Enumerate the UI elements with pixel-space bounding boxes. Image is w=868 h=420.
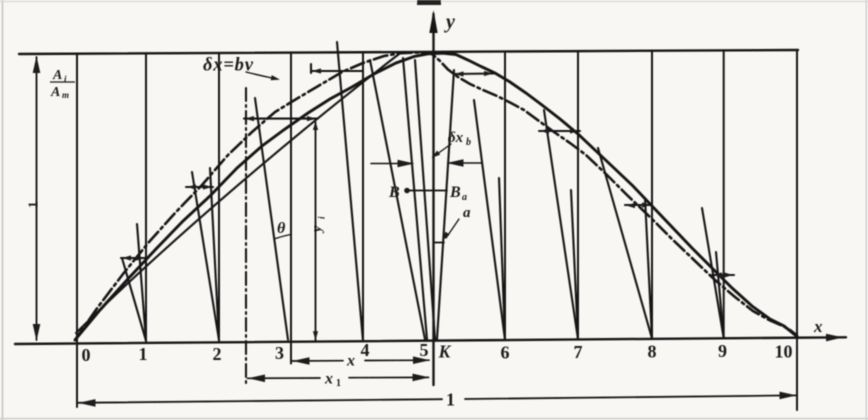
step station 9: [712, 274, 734, 276]
wedge line station8 right: [645, 198, 652, 339]
svg-text:x: x: [324, 371, 333, 388]
step end arrows: [122, 255, 131, 260]
svg-text:m: m: [62, 90, 69, 100]
step right of axis: [454, 73, 495, 76]
wedge line station3 left (theta line): [255, 98, 288, 340]
point B dot: [404, 188, 410, 194]
svg-text:A: A: [50, 85, 60, 100]
step horizontal H2 with tick: [311, 64, 363, 73]
y-axis: [432, 14, 434, 385]
svg-text:1: 1: [139, 344, 148, 364]
bottom dimension line: [78, 395, 796, 402]
svg-text:θ: θ: [277, 220, 286, 237]
x-axis arrowhead: [826, 334, 843, 342]
x-axis: [15, 337, 846, 344]
svg-text:7: 7: [574, 342, 583, 362]
left dimension line: [36, 57, 38, 340]
wedge line K left: [415, 60, 435, 339]
scan blob top: [417, 0, 441, 5]
svg-text:3: 3: [275, 343, 284, 363]
gridline 4: [362, 52, 364, 341]
y-axis arrowhead: [429, 10, 437, 33]
svg-text:10: 10: [775, 342, 793, 362]
svg-text:a: a: [462, 192, 467, 203]
delta-xb leader: [433, 144, 451, 157]
wedge line station2 left: [192, 172, 219, 340]
wedge line station5 left outer: [370, 60, 425, 339]
scan border right: [865, 0, 867, 420]
step station 8: [625, 204, 652, 206]
scan border bottom: [0, 418, 868, 420]
gridline 9: [723, 50, 725, 338]
svg-text:8: 8: [648, 342, 657, 362]
wedge line station6 left: [474, 100, 505, 340]
svg-text:A: A: [52, 68, 62, 83]
wedge line station9 right: [716, 252, 724, 338]
step horizontal H1: [244, 118, 317, 120]
wedge line station5 left inner: [403, 58, 427, 339]
svg-text:2: 2: [213, 344, 222, 364]
delta-x=bv leader arrow: [246, 72, 277, 79]
gridline 0: [76, 54, 78, 407]
svg-text:0: 0: [82, 345, 91, 365]
theta arc: [276, 235, 291, 239]
dash-dot vertical x1 marker: [245, 88, 247, 385]
svg-text:B: B: [449, 184, 461, 201]
wedge line K right: [437, 70, 454, 339]
svg-text:i: i: [317, 216, 327, 219]
wedge line station6 right: [499, 178, 505, 340]
wedge line station1 left: [122, 258, 146, 341]
gridline 3: [290, 53, 292, 364]
svg-text:6: 6: [501, 343, 510, 363]
wedge line station4 left: [337, 42, 363, 341]
svg-text:B: B: [388, 184, 400, 201]
B to Ba horizontal: [407, 190, 447, 192]
gridline 6: [504, 52, 506, 340]
svg-text:1: 1: [446, 390, 455, 410]
svg-text:δx: δx: [448, 130, 464, 146]
svg-text:b: b: [466, 137, 471, 148]
svg-text:4: 4: [361, 340, 370, 360]
wedge line station1 right: [137, 224, 146, 341]
svg-text:y: y: [310, 225, 325, 234]
a tick: [434, 242, 445, 244]
yi dimension line: [315, 122, 317, 341]
delta-xb dimension right part: [449, 162, 482, 164]
svg-text:x: x: [346, 353, 355, 370]
svg-text:1: 1: [25, 202, 40, 209]
wedge line station8 left: [598, 148, 652, 339]
gridline 7: [577, 51, 579, 339]
gridline 2: [218, 53, 220, 342]
x dimension line: [292, 359, 429, 362]
gridline 8: [651, 51, 653, 339]
dash-dot shifted curve: [75, 53, 797, 341]
step at station1: [121, 257, 146, 259]
scan border left: [2, 0, 4, 420]
svg-text:K: K: [438, 342, 452, 362]
scan border top: [0, 1, 868, 3]
x1 dimension line: [248, 376, 429, 379]
delta-xb dimension left part: [371, 163, 412, 165]
gridline 1: [145, 53, 147, 343]
svg-text:a: a: [463, 205, 471, 221]
gridline 10: [796, 50, 798, 410]
wedge line station7 left: [544, 110, 578, 339]
svg-text:1: 1: [336, 378, 341, 389]
solid area curve: [75, 53, 797, 340]
wedge line station2 right: [210, 168, 219, 340]
svg-text:5: 5: [420, 340, 429, 360]
a leader: [446, 219, 459, 238]
svg-text:x: x: [813, 317, 823, 336]
wedge line station9 left: [702, 208, 724, 338]
step station 7: [539, 130, 580, 132]
wedge line station7 right: [571, 190, 578, 339]
svg-text:δx=bv: δx=bv: [203, 56, 254, 76]
svg-text:y: y: [444, 11, 455, 33]
top reference line y=1: [19, 50, 798, 54]
step between stations 1-2: [186, 186, 213, 188]
svg-text:9: 9: [718, 341, 727, 361]
chord line from origin: [76, 53, 401, 334]
